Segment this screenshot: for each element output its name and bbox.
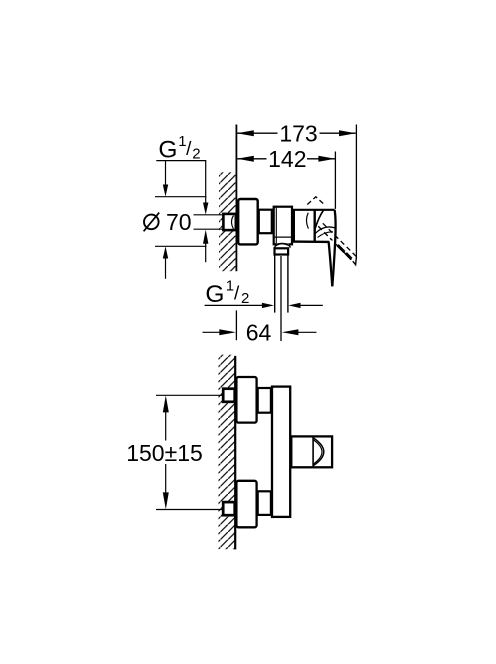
main body block (top view) [274, 207, 292, 245]
lever handle white fill (occludes dashes) [329, 240, 336, 286]
cap left edge [314, 210, 316, 241]
body plate (bottom view) [272, 387, 290, 517]
spout cap line [312, 436, 314, 468]
leader arrow up to pipe bottom (G 1/2 top) [203, 230, 208, 263]
extension line right (173) [355, 125, 357, 258]
supply pipe lines (into wall nut) [194, 214, 223, 216]
top tube (bottom view) [258, 388, 271, 413]
arc inside nut [232, 216, 234, 229]
bottom tube (bottom view) [258, 491, 271, 515]
inner curves of cap [315, 227, 335, 234]
svg-text:/: / [234, 284, 240, 305]
leader underline for G 1/2 (top) [156, 160, 206, 162]
extension line (142) [334, 152, 336, 209]
svg-text:2: 2 [192, 145, 200, 162]
svg-text:142: 142 [268, 146, 306, 172]
svg-text:/: / [186, 139, 192, 160]
hose center line [280, 256, 282, 341]
dimension 150±15 vertical line + arrows [163, 395, 169, 509]
leader arrow down to pipe top (G 1/2 top) [203, 161, 208, 215]
wall hatching (bottom view) [219, 355, 235, 550]
dimension 64 left arrow [203, 329, 236, 335]
label G 1/2 (bottom of top view) [205, 278, 249, 309]
dashed lever alternate position: peak [307, 197, 324, 205]
lever front diagonal [315, 210, 324, 229]
svg-text:2: 2 [241, 290, 249, 307]
svg-text:64: 64 [246, 319, 272, 345]
arc on body [306, 213, 308, 229]
inner line of main block [275, 206, 277, 246]
top escutcheon (bottom view) [236, 377, 256, 423]
counter arrow right of hose (G 1/2 bottom) [288, 303, 322, 308]
dimension 64 right arrow [282, 329, 317, 335]
body step section (top view) [259, 210, 272, 234]
hose neck arc [277, 244, 289, 247]
dimension text Ø 70 [144, 209, 192, 235]
dimension 142 line + arrows [237, 156, 335, 162]
lever handle right edge [332, 210, 335, 286]
dashed lever tip [353, 257, 357, 265]
extension line bottom (150±15) [156, 509, 222, 511]
dashed lever thick strokes [338, 245, 352, 259]
extension line for 64 [235, 310, 237, 340]
svg-text:1: 1 [226, 278, 234, 295]
leader line G 1/2 bottom with right arrow [205, 303, 274, 308]
dashed lever alternate position: lower edge [318, 226, 353, 261]
escutcheon flange (top view) [238, 199, 258, 244]
label G 1/2 (top) [158, 133, 200, 164]
spout (bottom view) [291, 436, 332, 467]
cartridge section (top view) [294, 210, 335, 241]
dimension Ø70 ticks [155, 196, 207, 198]
hose walls [274, 255, 276, 312]
extension line top (150±15) [156, 394, 222, 396]
svg-text:70: 70 [166, 209, 192, 235]
svg-text:150±15: 150±15 [126, 440, 203, 466]
top wall nut (bottom view) [223, 389, 235, 402]
spout cap arcs [313, 438, 324, 466]
wall hatching (top view) [219, 172, 236, 271]
wall connection nut (top view) [223, 214, 235, 230]
svg-text:G: G [158, 136, 177, 163]
Ø70 lower arrow [163, 246, 168, 278]
bottom wall nut (bottom view) [223, 502, 235, 515]
wall line (bottom view) [234, 356, 236, 550]
hose neck sides [274, 245, 290, 247]
bottom escutcheon (bottom view) [236, 481, 256, 528]
Ø70 upper arrow [163, 161, 168, 197]
svg-text:173: 173 [279, 120, 317, 146]
hose nut [275, 248, 289, 254]
body bottom line to lever [293, 240, 329, 243]
lever handle left edge [329, 242, 333, 287]
dashed lever alternate position: upper edge [323, 223, 357, 256]
svg-text:G: G [205, 281, 224, 308]
body bottom internal line [274, 236, 292, 238]
dimension 173 line + arrows [237, 130, 356, 136]
wall line (top view, also extension line for 173/142 dimensions) [235, 125, 237, 272]
